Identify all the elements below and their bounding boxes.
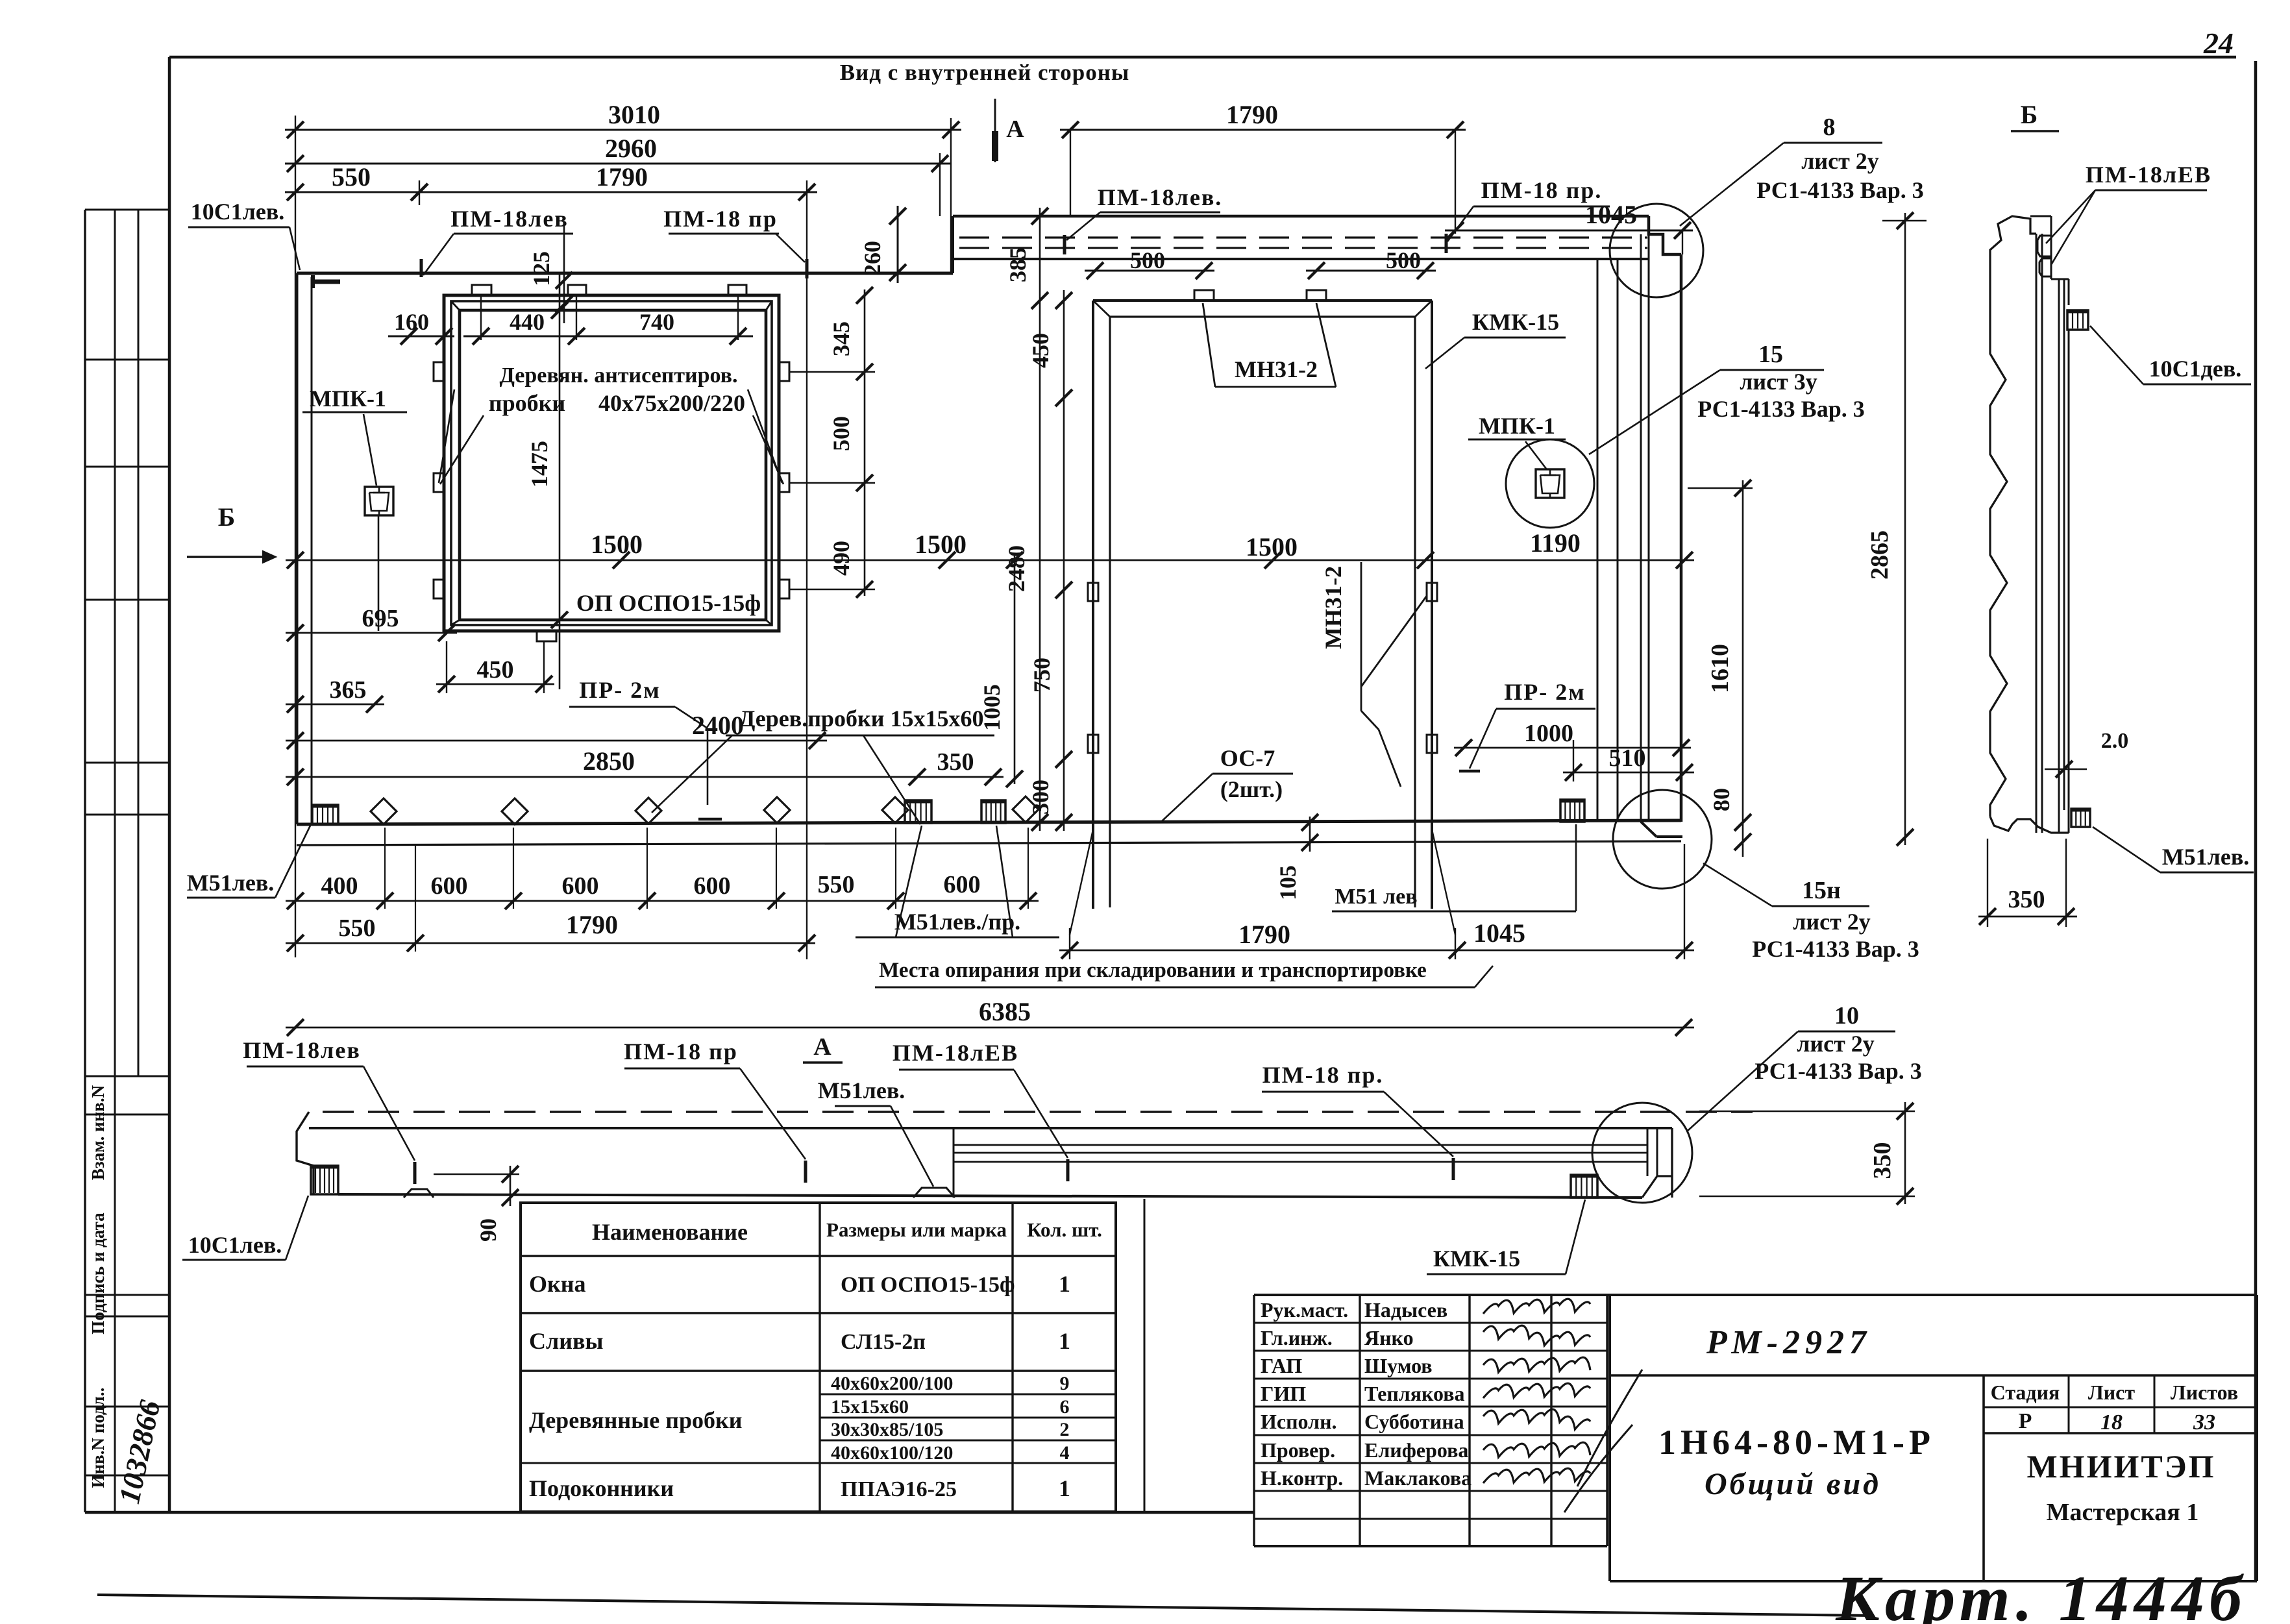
svg-text:РС1-4133 Вар. 3: РС1-4133 Вар. 3 <box>1756 177 1923 203</box>
table header kol <box>1027 1218 1102 1241</box>
svg-text:350: 350 <box>937 748 974 776</box>
leader M51lev/pr 1 <box>896 826 922 937</box>
svg-text:Наименование: Наименование <box>592 1219 748 1245</box>
specification table grid <box>521 1203 1116 1512</box>
window middle frame <box>451 301 772 625</box>
svg-text:Места опирания при складирован: Места опирания при складировании и транс… <box>879 959 1427 982</box>
M51 hatched plug right <box>1560 800 1584 822</box>
leader 15n <box>1703 863 1772 906</box>
window center extension line <box>559 273 561 689</box>
svg-text:КМК-15: КМК-15 <box>1433 1246 1520 1272</box>
svg-text:М51лев./пр.: М51лев./пр. <box>894 909 1020 935</box>
svg-text:Янко: Янко <box>1364 1326 1414 1349</box>
svg-text:СЛ15-2п: СЛ15-2п <box>841 1330 926 1354</box>
svg-text:М51лев.: М51лев. <box>187 870 275 896</box>
sheet left border <box>168 57 171 1512</box>
door right jamb outer <box>1431 301 1433 909</box>
leader derev probki 1 <box>652 735 732 813</box>
svg-text:350: 350 <box>2008 886 2045 913</box>
svg-text:Гл.инж.: Гл.инж. <box>1261 1326 1333 1349</box>
window corner bevel tr <box>766 301 772 310</box>
door plug left side 1 <box>1088 583 1098 601</box>
leader PM-18pr secA 2 <box>1384 1092 1453 1157</box>
title block MNIITEP <box>2026 1448 2215 1484</box>
svg-text:2850: 2850 <box>583 746 635 776</box>
svg-text:440: 440 <box>510 309 545 335</box>
svg-text:РС1-4133 Вар. 3: РС1-4133 Вар. 3 <box>1752 936 1919 962</box>
svg-text:ПР- 2м: ПР- 2м <box>579 677 661 703</box>
MPK-1 leader right <box>1525 441 1546 469</box>
table subrow 4 <box>831 1442 1070 1464</box>
svg-text:лист 2у: лист 2у <box>1793 909 1871 935</box>
window top plug ext 1 <box>480 295 482 340</box>
extension line x646 <box>419 180 420 205</box>
bottom chain row1 <box>286 871 1039 909</box>
svg-text:600: 600 <box>431 872 468 900</box>
svg-text:2960: 2960 <box>605 134 657 163</box>
section B 10S1 hatched plug <box>2067 310 2088 330</box>
svg-text:1500: 1500 <box>915 530 966 559</box>
label PM-18pr secA 2 <box>1262 1062 1384 1092</box>
label derevyan antiseptirov <box>499 363 737 388</box>
svg-text:Б: Б <box>218 502 235 532</box>
MPK-1 plug box right <box>1536 469 1564 498</box>
window plug top 1 <box>472 285 491 295</box>
ext 1790tr right <box>1455 130 1456 234</box>
PM-18pr right label <box>1473 177 1610 206</box>
door top edge outer <box>1093 299 1432 302</box>
section B top knob 2 <box>2039 258 2051 277</box>
section B core line 2 <box>2041 234 2043 833</box>
svg-text:4: 4 <box>1060 1442 1070 1464</box>
svg-text:2: 2 <box>1060 1419 1070 1440</box>
svg-text:105: 105 <box>1275 865 1301 900</box>
PM-18lev bar left <box>413 1162 417 1184</box>
svg-text:Размеры или марка: Размеры или марка <box>826 1218 1007 1241</box>
dim 510 <box>1563 740 1694 781</box>
panel bottom lower line <box>297 841 1681 845</box>
main mid dim row <box>286 528 1694 569</box>
left sidebar boxes <box>85 210 169 1512</box>
svg-text:40х60х200/100: 40х60х200/100 <box>831 1373 953 1394</box>
svg-text:1045: 1045 <box>1585 200 1637 229</box>
door left vertical chain <box>1028 290 1072 831</box>
PR-2m leader left <box>675 707 722 819</box>
PM-18lev mid label <box>1098 184 1223 212</box>
section A SL bump left <box>404 1189 434 1198</box>
svg-text:ПМ-18лЕВ: ПМ-18лЕВ <box>893 1040 1018 1066</box>
section A marker bottom <box>803 1033 843 1063</box>
svg-text:365: 365 <box>330 676 367 704</box>
PR-2m label right <box>1496 679 1595 709</box>
svg-text:ПМ-18 пр: ПМ-18 пр <box>624 1039 738 1064</box>
svg-text:Елиферова: Елиферова <box>1364 1438 1468 1462</box>
svg-text:450: 450 <box>477 656 514 683</box>
svg-text:Теплякова: Теплякова <box>1364 1382 1465 1405</box>
bottom chain row2 left <box>286 910 815 952</box>
M51 hatched plug mid 2 <box>981 800 1005 823</box>
label KMK-15 secA <box>1427 1246 1566 1274</box>
svg-text:15: 15 <box>1758 341 1783 368</box>
detail circle section A right <box>1592 1103 1692 1203</box>
leader KMK-15 secA <box>1566 1200 1585 1274</box>
section B face line 2 <box>2063 279 2065 810</box>
dim 1790 top <box>409 162 817 201</box>
svg-text:ПМ-18 пр.: ПМ-18 пр. <box>1262 1062 1384 1088</box>
door right jamb inner <box>1414 317 1416 907</box>
title block obshiy vid <box>1705 1467 1881 1501</box>
dim 365 <box>286 676 384 713</box>
leader derev probki 2 <box>863 735 920 824</box>
door left jamb outer <box>1092 301 1094 909</box>
svg-text:ПМ-18лЕВ: ПМ-18лЕВ <box>2086 162 2211 188</box>
dim 695 <box>286 605 457 641</box>
svg-text:490: 490 <box>828 541 854 576</box>
dim 2865 <box>1866 212 1927 846</box>
svg-text:(2шт.): (2шт.) <box>1220 776 1283 802</box>
svg-text:600: 600 <box>944 871 981 898</box>
dim 500 door right <box>1306 247 1436 279</box>
PM-18pr label <box>663 206 779 234</box>
svg-text:510: 510 <box>1609 744 1646 772</box>
window top plug ext 2 <box>576 295 577 340</box>
svg-text:ПМ-18лев: ПМ-18лев <box>450 206 569 232</box>
dim 385 and 2480 line <box>1003 208 1048 831</box>
window outer frame <box>444 295 779 631</box>
svg-text:А: А <box>1006 116 1024 143</box>
door top edge inner <box>1110 315 1415 317</box>
support diamond 4 <box>764 797 790 823</box>
dim 125 vertical <box>528 223 572 323</box>
svg-text:Шумов: Шумов <box>1364 1354 1433 1377</box>
section B top cap <box>2030 216 2069 305</box>
svg-text:30х30х85/105: 30х30х85/105 <box>831 1419 943 1440</box>
svg-text:ППАЭ16-25: ППАЭ16-25 <box>841 1477 957 1501</box>
slanted ext door right <box>1432 830 1455 959</box>
leader M51lev left <box>275 826 310 898</box>
svg-text:Общий вид: Общий вид <box>1705 1467 1881 1501</box>
svg-text:1610: 1610 <box>1706 644 1734 693</box>
svg-text:6: 6 <box>1060 1396 1070 1418</box>
dim 90 secA <box>434 1166 519 1242</box>
svg-text:350: 350 <box>1869 1142 1896 1179</box>
svg-text:ОС-7: ОС-7 <box>1220 745 1275 771</box>
bottom chain row2 right <box>1059 918 1694 959</box>
detail circle bottom right <box>1613 790 1712 889</box>
section A KMK hatched plug <box>1571 1175 1597 1198</box>
svg-text:1045: 1045 <box>1473 918 1525 948</box>
svg-text:ОП ОСПО15-15ф: ОП ОСПО15-15ф <box>841 1273 1015 1297</box>
svg-text:МН31-2: МН31-2 <box>1320 566 1346 649</box>
view title <box>840 60 1129 85</box>
svg-text:10С1дев.: 10С1дев. <box>2149 356 2242 382</box>
svg-text:РС1-4133 Вар. 3: РС1-4133 Вар. 3 <box>1754 1058 1921 1084</box>
svg-text:500: 500 <box>1130 247 1165 273</box>
svg-text:9: 9 <box>1060 1373 1070 1394</box>
section B core line 1 <box>2036 234 2038 833</box>
label 10S1lev secB <box>2143 356 2251 384</box>
support diamond 3 <box>635 798 661 824</box>
svg-text:1790: 1790 <box>596 162 648 191</box>
dim 1005 vertical <box>979 552 1023 787</box>
M51 hatched plug mid 1 <box>905 800 931 823</box>
svg-text:Лист: Лист <box>2088 1381 2135 1404</box>
svg-text:1: 1 <box>1059 1271 1070 1297</box>
label mesta opiraniya <box>879 959 1427 982</box>
panel strip dashed line 1 <box>959 236 1647 238</box>
PM-18lev leader <box>421 234 454 277</box>
svg-text:2.0: 2.0 <box>2101 729 2129 753</box>
section A inner line 2 <box>954 1152 1647 1154</box>
MPK-1 label left <box>302 386 407 412</box>
svg-text:90: 90 <box>475 1218 501 1242</box>
svg-text:1Н64-80-М1-Р: 1Н64-80-М1-Р <box>1658 1423 1935 1462</box>
signatures <box>1483 1299 1642 1512</box>
svg-text:Сливы: Сливы <box>529 1328 604 1354</box>
panel top-right step detail <box>1649 216 1681 254</box>
leader 10 <box>1688 1031 1798 1131</box>
label PM-18lev secB <box>2086 162 2211 190</box>
svg-text:385: 385 <box>1005 247 1031 282</box>
svg-text:Листов: Листов <box>2171 1381 2238 1404</box>
divider line right of table <box>1144 1199 1146 1512</box>
support diamond 1 <box>371 798 397 824</box>
section B M51 hatched plug <box>2071 809 2090 827</box>
dim 440 740 <box>463 309 753 345</box>
svg-text:40х75х200/220: 40х75х200/220 <box>598 390 745 416</box>
svg-text:МПК-1: МПК-1 <box>1479 413 1555 439</box>
PM-18pr leader <box>776 234 807 278</box>
svg-text:750: 750 <box>1029 658 1055 693</box>
leader PM-18lev secA 1 <box>363 1066 415 1161</box>
door plug right side 2 <box>1427 735 1437 753</box>
panel right column line c <box>1640 234 1642 822</box>
svg-text:260: 260 <box>859 241 885 276</box>
leader PM-18lev secA 2 <box>1014 1070 1068 1158</box>
window plug left 3 <box>434 580 444 598</box>
sidebar label Vzam inv N <box>88 1085 108 1180</box>
callout 10 <box>1754 1002 1921 1084</box>
window inner opening <box>460 310 766 620</box>
leader MN31-2 rotated <box>1361 562 1427 787</box>
sheet top border <box>169 56 2236 59</box>
svg-text:160: 160 <box>394 309 429 335</box>
svg-text:Деревян. антисептиров.: Деревян. антисептиров. <box>499 363 737 388</box>
svg-text:550: 550 <box>818 871 855 898</box>
section B left wavy edge <box>1990 276 2007 817</box>
svg-text:М51лев.: М51лев. <box>2162 844 2250 870</box>
svg-text:125: 125 <box>528 251 554 286</box>
leader probki right <box>748 389 783 484</box>
ext x640 <box>415 844 416 952</box>
PM-18pr bar right <box>1452 1158 1455 1180</box>
svg-text:500: 500 <box>1386 247 1421 273</box>
svg-text:ГАП: ГАП <box>1261 1354 1302 1377</box>
section B bottom hook <box>1990 817 2069 833</box>
section B marker top right <box>2011 100 2059 131</box>
page number 24 handwritten <box>2203 27 2234 60</box>
door plug right side 1 <box>1427 583 1437 601</box>
svg-text:Взам. инв.N: Взам. инв.N <box>88 1085 108 1180</box>
window plug left 2 <box>434 473 444 492</box>
dim 450 window <box>436 641 554 693</box>
svg-text:Провер.: Провер. <box>1261 1438 1335 1462</box>
svg-text:40х60х100/120: 40х60х100/120 <box>831 1442 953 1464</box>
PM-18lev bar right <box>1066 1159 1070 1181</box>
label M51lev secB <box>2160 844 2254 872</box>
svg-text:Р: Р <box>2019 1409 2032 1433</box>
svg-text:1790: 1790 <box>1226 100 1278 129</box>
detail circle MPK right <box>1506 439 1594 528</box>
svg-text:лист 2у: лист 2у <box>1801 148 1879 174</box>
dim 350 secA <box>1699 1102 1915 1205</box>
svg-text:А: А <box>813 1033 831 1061</box>
svg-text:6385: 6385 <box>979 997 1031 1026</box>
label M51lev left <box>187 870 275 898</box>
section A top edge <box>309 1127 1672 1129</box>
svg-text:740: 740 <box>639 309 674 335</box>
leader 8 <box>1680 143 1784 226</box>
svg-text:1: 1 <box>1059 1328 1070 1354</box>
svg-text:550: 550 <box>339 915 376 942</box>
svg-text:1475: 1475 <box>526 441 552 487</box>
leader PM-18pr secA 1 <box>740 1068 806 1159</box>
MPK-1 leader left <box>363 414 376 486</box>
svg-text:Окна: Окна <box>529 1271 586 1297</box>
door left jamb inner <box>1109 317 1111 907</box>
section A right end block <box>1642 1128 1672 1198</box>
svg-text:Маклакова: Маклакова <box>1364 1466 1471 1490</box>
leader M51lev secB <box>2093 827 2160 872</box>
table row slivy <box>529 1328 1070 1354</box>
panel bottom edge <box>297 820 1681 824</box>
callout 15 <box>1697 341 1864 422</box>
paper bottom edge line <box>97 1595 1869 1616</box>
svg-text:80: 80 <box>1708 788 1734 811</box>
table header name <box>592 1219 748 1245</box>
panel top-left corner mark <box>313 275 340 288</box>
title block grid <box>1610 1295 2257 1581</box>
svg-text:Карт. 1444б: Карт. 1444б <box>1835 1562 2247 1624</box>
label OS-7 <box>1213 745 1293 802</box>
label 10S1lev bottom <box>182 1232 286 1260</box>
svg-text:ПМ-18 пр.: ПМ-18 пр. <box>1481 177 1603 203</box>
svg-text:300: 300 <box>1028 780 1053 815</box>
label M51lev secA <box>818 1077 905 1106</box>
leader M51lev secA <box>891 1106 933 1187</box>
svg-text:1000: 1000 <box>1524 720 1573 747</box>
dim 1475 window <box>526 302 568 628</box>
svg-text:500: 500 <box>828 416 854 451</box>
svg-text:600: 600 <box>694 872 731 900</box>
label PM-18pr secA 1 <box>624 1039 740 1068</box>
section A inner line 3 <box>954 1161 1647 1163</box>
dim 1790 top right <box>1060 100 1466 138</box>
label KMK-15 top <box>1464 309 1566 338</box>
ext 2595 <box>1684 844 1685 959</box>
PR-2m label left <box>569 677 675 707</box>
window plug right 1 <box>779 362 789 381</box>
section A SL bump <box>913 1188 955 1198</box>
svg-text:Б: Б <box>2021 100 2038 129</box>
door corner miter left <box>1093 301 1110 317</box>
table row podokonniki <box>529 1475 1070 1501</box>
svg-text:Мастерская 1: Мастерская 1 <box>2047 1499 2199 1526</box>
title block object <box>1658 1423 1935 1462</box>
svg-text:Дерев.пробки 15х15х60: Дерев.пробки 15х15х60 <box>739 706 984 732</box>
names table texts <box>1261 1298 1471 1490</box>
dim 2960 <box>285 134 950 172</box>
panel step at window/door junction <box>952 216 954 273</box>
dim 6385 <box>286 997 1694 1036</box>
section A dashed top line <box>323 1111 1753 1113</box>
panel right column line b <box>1617 259 1619 822</box>
PR-2m right leader <box>1459 709 1496 771</box>
svg-text:Стадия: Стадия <box>1991 1381 2060 1404</box>
window corner bevel bl <box>451 620 460 625</box>
svg-text:1190: 1190 <box>1530 528 1581 558</box>
svg-text:Подпись и дата: Подпись и дата <box>88 1212 108 1335</box>
leader 10S1lev bottom <box>286 1196 308 1260</box>
table row derev probki <box>529 1407 742 1433</box>
section B panel top hook <box>1990 216 2036 276</box>
svg-text:Субботина: Субботина <box>1364 1410 1464 1433</box>
window plug top 2 <box>568 285 586 295</box>
section A marker top <box>995 99 1024 162</box>
svg-text:345: 345 <box>828 321 854 356</box>
svg-text:Кол. шт.: Кол. шт. <box>1027 1218 1102 1241</box>
ext 1790tr left <box>1070 130 1071 216</box>
label derev probki 15x15x60 <box>726 706 994 735</box>
window corner bevel br <box>766 620 772 625</box>
PM-18pr bar left <box>804 1161 807 1183</box>
dim 260 vertical <box>859 206 906 283</box>
panel bottom-right corner step <box>1641 822 1682 837</box>
bottom chain ext lines <box>385 828 1028 909</box>
PM-18lev label <box>450 206 573 234</box>
section B marker left <box>187 502 276 563</box>
MPK-1 left stem <box>378 515 380 631</box>
svg-text:18: 18 <box>2100 1410 2123 1434</box>
section B top knob 1 <box>2038 236 2051 256</box>
slanted ext door left <box>1070 830 1093 959</box>
table subrow 3 <box>831 1419 1070 1440</box>
section A left plug hatched <box>311 1166 338 1194</box>
svg-text:400: 400 <box>321 872 358 900</box>
window plug right 3 <box>779 580 789 598</box>
door plug top 2 <box>1307 290 1326 301</box>
dim 2850 and 350 <box>286 746 1003 785</box>
support diamond 6 <box>1013 796 1039 822</box>
svg-text:600: 600 <box>562 872 599 900</box>
callout 8 <box>1756 114 1923 203</box>
svg-text:Н.контр.: Н.контр. <box>1261 1466 1343 1490</box>
leader 15 <box>1589 370 1720 454</box>
svg-text:ПМ-18лев: ПМ-18лев <box>243 1037 361 1063</box>
label probki 40x75 <box>489 390 745 416</box>
svg-text:ПМ-18 пр: ПМ-18 пр <box>663 206 778 232</box>
label MN31-2 flag <box>1203 303 1336 387</box>
svg-text:ГИП: ГИП <box>1261 1382 1306 1405</box>
svg-text:пробки: пробки <box>489 390 565 416</box>
table row okna <box>529 1271 1070 1297</box>
section A left end outline <box>297 1112 314 1194</box>
svg-text:лист 2у: лист 2у <box>1797 1031 1875 1057</box>
window corner bevel tl <box>451 301 460 310</box>
svg-text:2865: 2865 <box>1866 530 1893 580</box>
leader KMK-15 top <box>1425 338 1464 369</box>
svg-text:М51лев.: М51лев. <box>818 1077 905 1103</box>
